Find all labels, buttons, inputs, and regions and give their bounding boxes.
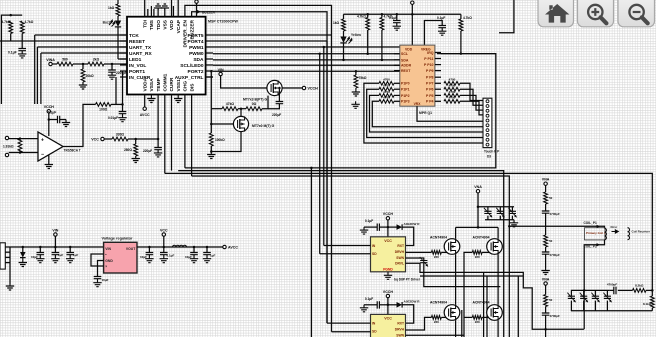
wire drv1 SD bbox=[320, 253, 371, 255]
svg-text:RXT: RXT bbox=[397, 244, 404, 248]
wire TCK drop bbox=[34, 35, 36, 104]
node in+ tap bbox=[19, 137, 22, 140]
capacitor C18 trimmer bbox=[484, 211, 491, 213]
svg-text:×: × bbox=[105, 264, 107, 268]
svg-text:P1P0: P1P0 bbox=[401, 82, 410, 86]
wire touch stair 4 bbox=[460, 101, 483, 115]
svg-text:COMM1: COMM1 bbox=[163, 73, 169, 91]
wire C drv1 gnd bbox=[364, 226, 377, 228]
resistor R27 220 bbox=[431, 251, 441, 255]
wire touch stair 1 bbox=[460, 83, 483, 100]
svg-text:AVCC: AVCC bbox=[140, 113, 150, 117]
wire VCC top drop bbox=[196, 3, 198, 16]
wire Q1 drain out bbox=[282, 87, 302, 89]
ground G drv1 bbox=[360, 227, 368, 234]
wire trio cap 1 top bbox=[487, 207, 489, 212]
wire bus E drop bbox=[310, 168, 312, 337]
svg-text:MPR Q1: MPR Q1 bbox=[419, 111, 432, 115]
capacitor C8 0.1uF bbox=[438, 26, 446, 28]
wire U3 left pin stubs bbox=[394, 53, 400, 55]
wire C6 top bbox=[278, 88, 280, 102]
wire coil feed bbox=[509, 226, 604, 228]
wire chainLED top bbox=[343, 14, 345, 19]
svg-text:VSS: VSS bbox=[163, 19, 169, 29]
wire R16 top bbox=[381, 14, 383, 17]
wire R3 top feed bbox=[117, 0, 119, 4]
wire drv2 IN bbox=[327, 322, 371, 324]
node C16 tap bbox=[206, 246, 209, 249]
wire R15 top bbox=[367, 14, 369, 17]
resistor R1 4.7k bbox=[9, 21, 13, 34]
svg-text:4700: 4700 bbox=[449, 78, 456, 82]
node R15 junction bbox=[366, 53, 369, 56]
ground G17 bbox=[351, 101, 359, 108]
ground G30 chain1 bbox=[541, 268, 549, 275]
wire C2 top bbox=[111, 64, 113, 70]
wire PORT4 drop bbox=[326, 41, 328, 323]
ground G27 bbox=[203, 255, 211, 263]
IC U5 gate driver body bbox=[371, 237, 406, 272]
wire SCL net bbox=[213, 64, 400, 66]
resistor R3 1k bbox=[116, 4, 120, 16]
ground G26 bbox=[190, 255, 198, 263]
node VCCH drv2 tap bbox=[387, 304, 390, 307]
transistor Q5 bbox=[444, 305, 460, 321]
svg-text:Coil Receiver: Coil Receiver bbox=[632, 230, 651, 234]
svg-text:50: 50 bbox=[549, 196, 553, 200]
svg-text:2kΩ: 2kΩ bbox=[93, 58, 100, 62]
resistor R23 4.7k right bbox=[444, 81, 460, 85]
wire R20 to pin bbox=[394, 88, 400, 90]
wire VCC drop bbox=[163, 236, 165, 247]
svg-text:50: 50 bbox=[549, 298, 553, 302]
svg-text:Voltage regulator: Voltage regulator bbox=[102, 237, 133, 241]
wire U1 right pin stubs bbox=[206, 34, 213, 36]
wire R19 to pin bbox=[394, 82, 400, 84]
ground G10 bbox=[118, 114, 126, 122]
wire UART_RX net bbox=[41, 52, 127, 54]
svg-text:PORT1: PORT1 bbox=[129, 69, 145, 75]
svg-text:TMS: TMS bbox=[149, 19, 155, 30]
connector J1 touch pads bbox=[483, 98, 492, 147]
node rail tap4 bbox=[396, 13, 399, 16]
capacitor C22 4700pF bbox=[542, 252, 550, 254]
svg-text:DRVL: DRVL bbox=[395, 261, 404, 265]
connector J2 pin stubs bbox=[5, 246, 10, 248]
svg-text:4.7kΩ: 4.7kΩ bbox=[463, 16, 472, 20]
svg-text:SWN: SWN bbox=[396, 333, 404, 337]
resistor R18 75k bbox=[354, 75, 358, 88]
button zoom in bbox=[578, 0, 614, 27]
svg-text:+: + bbox=[41, 137, 44, 143]
wire bank cap 1 top bbox=[570, 290, 572, 296]
terminal VINA bbox=[49, 62, 52, 65]
resistor R2 4.7k bbox=[20, 21, 24, 34]
wire SW drop left bbox=[483, 272, 485, 337]
resistor R9 330 bbox=[112, 137, 128, 141]
svg-text:75kΩ: 75kΩ bbox=[359, 76, 367, 80]
receiver arrow bbox=[612, 230, 619, 233]
capacitor C drv2 0.1uF bbox=[377, 301, 379, 308]
wire bank cap 2 top bbox=[583, 290, 585, 296]
wire drain rail bbox=[456, 226, 499, 228]
ground G23 bbox=[93, 279, 101, 287]
resistor R24 4.7k right bbox=[444, 87, 460, 91]
resistor R6 2k bbox=[88, 62, 104, 66]
wire Q4 source down bbox=[497, 254, 499, 286]
wire trio top rail bbox=[478, 206, 514, 208]
svg-text:330Ω: 330Ω bbox=[116, 133, 125, 137]
svg-text:4700: 4700 bbox=[449, 84, 456, 88]
svg-text:0.1μF: 0.1μF bbox=[167, 254, 175, 258]
wire top-left rail bbox=[1, 15, 22, 104]
terminal AVCC out bbox=[223, 245, 226, 248]
svg-text:VCCH: VCCH bbox=[383, 212, 394, 216]
wire Q2 gate pulldown bbox=[210, 109, 212, 133]
svg-text:220μF: 220μF bbox=[143, 149, 152, 153]
terminal VCCH drv2 bbox=[386, 294, 389, 297]
resistor R11 47k bbox=[222, 107, 238, 111]
wire U1 left pin stubs bbox=[120, 34, 127, 36]
wire D3 top bbox=[22, 247, 24, 252]
node in- tap bbox=[19, 151, 22, 154]
terminal VCC mpr bbox=[411, 1, 414, 4]
svg-text:ACNT4904: ACNT4904 bbox=[430, 301, 447, 305]
svg-text:4700: 4700 bbox=[449, 96, 456, 100]
connector J1 pins bbox=[486, 100, 489, 103]
svg-text:100Ω: 100Ω bbox=[99, 108, 108, 112]
wire to C3 bbox=[49, 119, 58, 121]
svg-text:Yellow: Yellow bbox=[351, 33, 361, 37]
svg-text:TCK: TCK bbox=[129, 33, 139, 39]
svg-text:SWN: SWN bbox=[396, 256, 404, 260]
node REXT branch bbox=[355, 70, 358, 73]
svg-text:0Ω: 0Ω bbox=[252, 102, 257, 106]
svg-text:LED1: LED1 bbox=[129, 57, 142, 63]
ground G drv2 bbox=[360, 305, 368, 312]
svg-text:UART_TX: UART_TX bbox=[129, 45, 152, 51]
wire PORT5 net bbox=[213, 34, 332, 36]
svg-text:AVCC: AVCC bbox=[228, 246, 238, 250]
wire C drv2 gnd bbox=[364, 304, 377, 306]
wire bank cap 3 bottom bbox=[594, 301, 596, 311]
ground G7 below pin bbox=[174, 95, 182, 103]
wire U1 pin TDO up bbox=[157, 9, 159, 17]
transistor Q4 bbox=[487, 239, 503, 255]
svg-text:P P6: P P6 bbox=[426, 88, 434, 92]
transistor Q6 bbox=[487, 305, 503, 321]
node junction top-left bbox=[9, 14, 12, 17]
node cap220 tap bbox=[278, 87, 281, 90]
svg-text:ADDR: ADDR bbox=[401, 64, 412, 68]
node LED D2 junction bbox=[342, 59, 345, 62]
resistor R21 4.7k left bbox=[379, 94, 394, 98]
node VIN tap bbox=[54, 246, 57, 249]
svg-text:Primary Coil 1: Primary Coil 1 bbox=[586, 231, 606, 235]
wire C9 top bbox=[39, 247, 41, 253]
node sense bbox=[651, 289, 654, 292]
svg-text:VNA: VNA bbox=[474, 185, 482, 189]
wire U3 right pin stubs bbox=[435, 52, 441, 54]
wire VNA drop bbox=[477, 193, 479, 228]
svg-text:TEMP: TEMP bbox=[156, 77, 162, 91]
capacitor C13 10uF bbox=[146, 253, 154, 255]
wire C4 top bbox=[122, 104, 124, 111]
svg-text:Rcvr: Rcvr bbox=[611, 225, 619, 229]
svg-text:SDA: SDA bbox=[193, 57, 204, 63]
terminal VIN mid bbox=[219, 72, 222, 75]
wire trio cap 1 bottom bbox=[487, 216, 489, 220]
node D3 tap bbox=[22, 246, 25, 249]
node rail tap3 bbox=[381, 13, 384, 16]
terminal input B bbox=[5, 153, 8, 156]
svg-text:0.1μF: 0.1μF bbox=[365, 297, 373, 301]
svg-text:1μF: 1μF bbox=[210, 254, 216, 258]
capacitor C7 0.1uF bbox=[393, 21, 401, 23]
node PWM1 branch bbox=[323, 46, 326, 49]
wire U1 extra stub c bbox=[172, 6, 174, 17]
wire PWM0 net bbox=[213, 53, 400, 55]
capacitor C21 4700pF bbox=[542, 211, 550, 213]
svg-text:MT7x3 B(PT) G: MT7x3 B(PT) G bbox=[243, 98, 267, 102]
wire gate row c bbox=[262, 96, 268, 109]
svg-text:4700pF: 4700pF bbox=[607, 283, 618, 287]
svg-text:CHG: CHG bbox=[183, 81, 189, 92]
ground G15 bbox=[438, 28, 446, 36]
wire SW drop mid bbox=[517, 276, 519, 337]
wire chain2 a bbox=[545, 285, 547, 294]
coil P1 arrow bbox=[597, 225, 601, 228]
wire U1 extra stub b bbox=[153, 9, 155, 17]
terminal VCCH opamp bbox=[47, 110, 50, 113]
ground G16 bbox=[352, 88, 360, 96]
resistor R31 50 bbox=[544, 192, 548, 204]
resistor R10 280 bbox=[134, 144, 138, 156]
svg-text:VCCH: VCCH bbox=[44, 105, 55, 109]
wire SWN2 route bbox=[406, 334, 465, 336]
svg-text:20kΩ: 20kΩ bbox=[86, 74, 95, 78]
diode D drv2 bootstrap bbox=[397, 302, 403, 308]
svg-text:VNA: VNA bbox=[542, 277, 550, 281]
svg-text:VDDA: VDDA bbox=[142, 77, 148, 91]
svg-text:TDO: TDO bbox=[156, 20, 162, 30]
svg-text:VOUT: VOUT bbox=[126, 247, 136, 251]
resistor R4 560 bbox=[57, 62, 73, 66]
wire C10 top bbox=[54, 247, 56, 253]
wire VREG loop bbox=[424, 21, 442, 46]
wire pin5 drop bbox=[171, 95, 173, 171]
wire IRQ net bbox=[441, 53, 496, 55]
capacitor C9 10uF bbox=[37, 253, 45, 255]
svg-text:47kΩ: 47kΩ bbox=[226, 102, 235, 106]
resistor R12 0 bbox=[246, 107, 262, 111]
ground G11 bbox=[132, 156, 140, 163]
terminal VNA chain1 bbox=[544, 182, 547, 185]
capacitor C2 2200pF bbox=[108, 70, 116, 72]
LED D1 bbox=[115, 21, 121, 27]
svg-text:VNA: VNA bbox=[542, 178, 550, 182]
wire R17 bottom bbox=[460, 31, 462, 54]
ground G28 drv1 bbox=[384, 272, 392, 280]
svg-text:8.1kΩ: 8.1kΩ bbox=[643, 302, 652, 306]
wire U1 extra stub a bbox=[147, 9, 149, 17]
node rail tap2 bbox=[366, 13, 369, 16]
svg-text:COIL_P2: COIL_P2 bbox=[584, 245, 598, 249]
wire drv1 IN bbox=[324, 245, 371, 247]
wire Q2 source bbox=[211, 132, 241, 152]
capacitor C26 resonant bbox=[592, 296, 599, 298]
wire UART_TX drop bbox=[36, 47, 38, 104]
svg-text:PWM0: PWM0 bbox=[189, 51, 204, 57]
svg-text:DRIVER_EN: DRIVER_EN bbox=[183, 19, 189, 47]
node VNA trio tap bbox=[477, 206, 480, 209]
svg-text:0.1μF: 0.1μF bbox=[48, 111, 57, 115]
svg-text:A0E2DW R: A0E2DW R bbox=[404, 300, 421, 304]
node Q2 drain bbox=[240, 107, 243, 110]
wire bank cap 2 bottom bbox=[583, 301, 585, 311]
capacitor C4 0.01uF bbox=[119, 112, 127, 114]
terminal VCCH drv1 bbox=[386, 217, 389, 220]
wire bank top rail bbox=[571, 289, 609, 291]
resistor R5 20k bbox=[81, 69, 85, 82]
wire R17 top bbox=[460, 14, 462, 19]
svg-text:0.01μF: 0.01μF bbox=[108, 116, 118, 120]
button home bbox=[538, 0, 574, 27]
svg-text:0.1μF: 0.1μF bbox=[437, 16, 445, 20]
svg-text:Buzz: Buzz bbox=[103, 21, 111, 25]
svg-text:10μF: 10μF bbox=[102, 278, 109, 282]
wire chain1 d bbox=[545, 247, 547, 252]
buzzer symbol bbox=[196, 9, 201, 14]
resistor R16 4.7k bbox=[380, 18, 384, 31]
ground G2 bbox=[79, 82, 87, 89]
svg-text:A0E2DW R: A0E2DW R bbox=[404, 222, 421, 226]
ground G19 bbox=[19, 258, 27, 267]
capacitor C17 bootstrap bbox=[420, 261, 427, 263]
wire chain1 a bbox=[545, 185, 547, 192]
svg-text:P1P3: P1P3 bbox=[401, 100, 410, 104]
resistor R29 220 bbox=[431, 316, 441, 320]
transistor Q3 bbox=[444, 239, 460, 255]
svg-text:VCAP: VCAP bbox=[176, 19, 182, 33]
wire C11 top bbox=[69, 247, 71, 253]
resistor R8 100 bbox=[96, 103, 112, 107]
capacitor C14 0.1uF bbox=[160, 253, 168, 255]
IC U3 MPR121 body bbox=[400, 45, 435, 106]
wire LED1 net bbox=[118, 58, 127, 60]
svg-text:RXT: RXT bbox=[397, 321, 404, 325]
svg-text:P P7: P P7 bbox=[426, 82, 434, 86]
wire VCC row b bbox=[128, 138, 158, 140]
wire top right stub bbox=[499, 0, 514, 33]
terminal AVCC bbox=[143, 107, 146, 110]
wire PWM1 net bbox=[213, 46, 400, 48]
svg-text:MT7x0 M(T) G: MT7x0 M(T) G bbox=[252, 124, 275, 128]
svg-text:ACNT4904: ACNT4904 bbox=[430, 236, 447, 240]
wire Q6 drain up bbox=[497, 287, 499, 305]
svg-text:D3: D3 bbox=[487, 155, 491, 159]
wire R10 top bbox=[135, 139, 137, 144]
wire vin rail bbox=[10, 246, 104, 248]
LED D2 arrows bbox=[346, 37, 352, 44]
connector J2 body bbox=[0, 243, 5, 269]
wire SWN1 route bbox=[406, 258, 424, 261]
node rail tap1 bbox=[411, 13, 414, 16]
svg-text:SCL/LED0: SCL/LED0 bbox=[180, 63, 204, 69]
svg-text:4700: 4700 bbox=[383, 96, 390, 100]
wire trio cap 2 top bbox=[499, 207, 501, 212]
wire C drv1 feed bbox=[379, 226, 388, 228]
wire U1 pin VDD up bbox=[171, 0, 173, 17]
wire chain1 b bbox=[545, 204, 547, 211]
wire DRVH1 d bbox=[482, 251, 490, 253]
resistor R35 8.1k bbox=[650, 296, 654, 308]
LED D2 yellow bbox=[340, 37, 346, 43]
svg-text:VIN: VIN bbox=[52, 228, 58, 232]
svg-text:4700pF: 4700pF bbox=[550, 212, 561, 216]
wire U1 pin VCAP up bbox=[177, 0, 179, 17]
wire Q5 source down bbox=[455, 320, 457, 337]
wire DRVH1 b bbox=[441, 251, 447, 253]
node bus A branch bbox=[310, 167, 313, 170]
svg-text:−: − bbox=[41, 152, 44, 158]
node coil feed tap bbox=[508, 225, 511, 228]
wire Q2 drain bbox=[240, 109, 242, 117]
resistor R13 100k bbox=[209, 133, 213, 146]
wire bank cap 3 top bbox=[594, 290, 596, 296]
svg-text:ACNT4904: ACNT4904 bbox=[473, 236, 490, 240]
wire opamp in- bbox=[9, 152, 38, 154]
resistor R25 4.7k right bbox=[444, 94, 460, 98]
terminal VCC reg bbox=[162, 233, 165, 236]
ground G5 above VDD bbox=[161, 4, 169, 10]
svg-text:P P5: P P5 bbox=[426, 94, 434, 98]
capacitor C drv1 0.1uF bbox=[377, 224, 379, 231]
resistor R26 4.7k right bbox=[444, 99, 460, 103]
node bank return junction bbox=[583, 289, 586, 292]
wire touch loop 4 bbox=[372, 101, 483, 126]
wire SDA net bbox=[213, 59, 400, 61]
wire U1 pin VSS up bbox=[164, 9, 166, 17]
wire diode drv2 feed bbox=[388, 304, 397, 306]
svg-text:ACNT4904: ACNT4904 bbox=[473, 301, 490, 305]
wire PORT4 net bbox=[213, 40, 327, 42]
wire R14 to LED bbox=[343, 31, 345, 37]
wire J2 drop bbox=[9, 247, 11, 284]
resistor R33 50 bbox=[544, 295, 548, 307]
wire VCCH drv2 drop bbox=[387, 298, 389, 315]
capacitor C23 4700pF bbox=[542, 313, 550, 315]
svg-text:SDA: SDA bbox=[401, 58, 409, 62]
wire chain2 b bbox=[545, 307, 547, 314]
ground G12 bbox=[154, 150, 162, 157]
svg-text:REXT: REXT bbox=[401, 69, 411, 73]
wire R5 top bbox=[82, 64, 84, 69]
svg-text:TDI: TDI bbox=[142, 19, 148, 27]
capacitor C25 resonant bbox=[580, 296, 587, 298]
IC U1 body bbox=[127, 17, 206, 95]
node C4 tap bbox=[121, 103, 124, 106]
svg-text:MSP CT2000CPW: MSP CT2000CPW bbox=[208, 20, 238, 24]
svg-text:P P9: P P9 bbox=[426, 69, 434, 73]
wire DRVL1 to Q4 gate bbox=[464, 252, 472, 337]
svg-text:280Ω: 280Ω bbox=[124, 148, 132, 152]
wire trio cap 3 bottom bbox=[511, 216, 513, 220]
svg-text:IN_VOL: IN_VOL bbox=[129, 63, 146, 69]
wire SW rail bbox=[456, 286, 501, 288]
capacitor C3 0.1uF bbox=[58, 116, 60, 124]
wire mpr rail bbox=[344, 13, 461, 15]
